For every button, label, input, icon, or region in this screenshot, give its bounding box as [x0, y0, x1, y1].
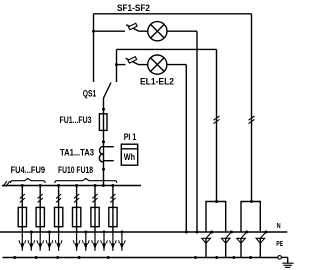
svg-text:QS1: QS1: [83, 89, 97, 100]
svg-text:FU1...FU3: FU1...FU3: [60, 115, 92, 126]
svg-text:EL1-EL2: EL1-EL2: [140, 76, 174, 87]
svg-text:PI 1: PI 1: [124, 131, 137, 142]
svg-text:N: N: [277, 221, 281, 230]
svg-text:FU4...FU9: FU4...FU9: [11, 165, 45, 176]
svg-text:Wh: Wh: [124, 151, 135, 162]
svg-text:PE: PE: [276, 239, 283, 248]
svg-text:SF1-SF2: SF1-SF2: [117, 3, 150, 14]
svg-text:FU10 FU18: FU10 FU18: [58, 165, 93, 176]
svg-text:TA1...TA3: TA1...TA3: [60, 148, 94, 159]
